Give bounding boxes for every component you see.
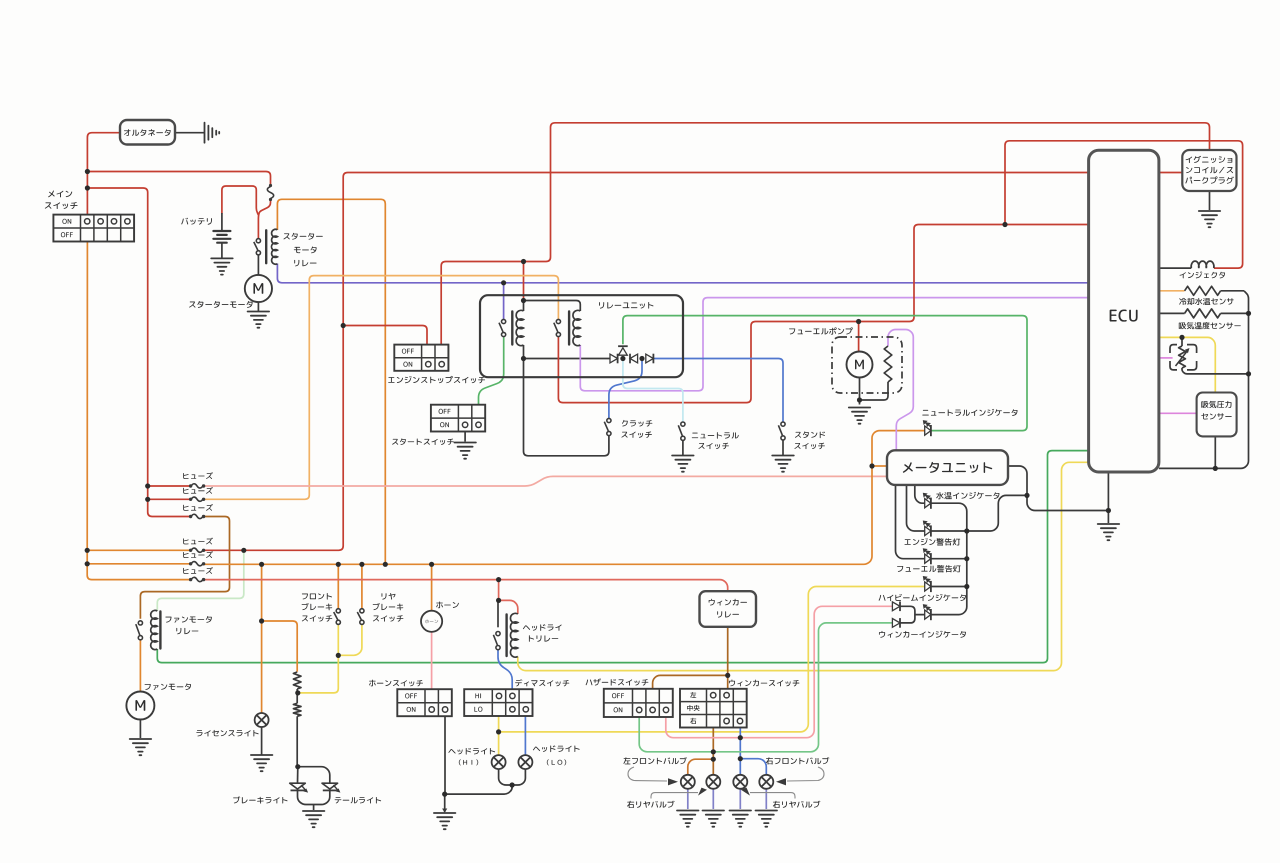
headlight relay coil: [510, 613, 517, 657]
horn switch ground: [434, 813, 456, 829]
front brake label2: [302, 603, 333, 610]
fan relay contact: [136, 621, 143, 640]
ignition coil box: [1182, 150, 1236, 191]
brake light filament: [293, 672, 301, 689]
fuse F3: [189, 515, 192, 518]
wire black engine LED right: [931, 530, 967, 532]
wire blue stand switch: [654, 359, 783, 422]
junction thermistor yellow: [1179, 335, 1184, 340]
wire black bus to ground node: [967, 495, 1027, 531]
wire yellow dimmer HI output: [498, 717, 500, 756]
fan motor: [126, 692, 154, 720]
right rear bulb label: [773, 801, 820, 808]
wire blue dimmer LO output: [524, 717, 526, 756]
wire black intake temp feed: [1159, 312, 1185, 314]
fuel level sender resistor: [884, 346, 892, 382]
LED fuel warning: [925, 554, 931, 563]
water temp indicator label: [936, 492, 999, 499]
junction fuel pump feed: [856, 319, 861, 324]
thermistor resistor: [1179, 346, 1186, 368]
hazard switch grid: [604, 689, 673, 717]
fuse F4: [189, 549, 192, 552]
wire blue right front bulb branch: [740, 759, 766, 775]
junction relay red node: [521, 259, 526, 264]
wire blue headlight relay to dimmer: [498, 650, 512, 689]
tail light filament: [293, 703, 301, 716]
wire black starter motor ground stub: [257, 302, 259, 312]
wire red main to fuse feed: [87, 188, 190, 517]
junction rear brake: [359, 562, 364, 567]
wire light-red headlight relay drop: [498, 580, 500, 601]
wire black fuel pump ground stub: [859, 400, 861, 405]
junction left bulbs: [711, 757, 716, 762]
wire black engine LED left: [907, 485, 925, 531]
fan motor relay coil: [151, 610, 158, 649]
winker switch grid label 左: [690, 692, 696, 698]
wire indigo starter relay coil to ECU: [277, 264, 1088, 283]
main switch grid: [53, 215, 134, 242]
junction fuse4 in: [85, 548, 90, 553]
wire blue bulb ground stub 4: [765, 789, 767, 809]
injector coil: [1191, 261, 1214, 268]
dimmer switch label: [515, 679, 569, 686]
junction headlight relay node: [496, 598, 501, 603]
junction meter orange: [869, 463, 874, 468]
start switch grid label ON: [440, 422, 449, 427]
coolant sensor label: [1179, 298, 1233, 305]
junction map ground: [1213, 466, 1218, 471]
wire orange starter relay coil feed: [277, 199, 385, 564]
wire orange meter feed: [872, 465, 887, 467]
main switch label2: [45, 202, 78, 209]
fan relay label2: [176, 628, 198, 634]
stand switch ground: [772, 456, 794, 472]
wire black horn ground stub: [444, 794, 446, 812]
leader left rear bulb: [651, 793, 698, 799]
alternator label: [124, 129, 171, 136]
wire brown winker left output: [712, 728, 714, 775]
wire green hazard left to indicator: [639, 623, 892, 752]
wire black map sensor ground: [1214, 436, 1216, 468]
left front bulb: [681, 775, 695, 789]
intake temp sensor resistor: [1185, 309, 1221, 318]
fuse F1: [189, 484, 192, 487]
wire black coil1 bottom stub: [523, 345, 525, 359]
coolant temp sensor resistor: [1185, 286, 1221, 295]
wire black alternator to ground: [175, 132, 205, 134]
winker relay box: [700, 591, 757, 627]
winker relay label1: [709, 599, 747, 606]
intake temp sensor label: [1179, 322, 1241, 329]
wire red relay2 output: [558, 225, 1088, 403]
neutral switch label1: [692, 432, 739, 439]
wire orange fuse4 input: [87, 549, 190, 551]
wire orange coolant sensor feed: [1159, 290, 1185, 292]
LED water temp indicator: [925, 499, 931, 508]
wire blue winker right output: [739, 728, 741, 775]
wire black coolant sensor out: [1221, 290, 1244, 292]
wire red fusible to battery junction: [258, 198, 270, 238]
wire red battery link: [222, 186, 259, 215]
fan relay label1: [165, 616, 211, 623]
relay2 contact: [554, 319, 561, 336]
brake light label: [233, 796, 287, 803]
wire yellow front brake out: [337, 624, 339, 655]
wire black intake temp out: [1221, 312, 1249, 314]
junction bus fuel: [964, 556, 969, 561]
fuse F5: [189, 562, 192, 565]
wire light-orange fuse2 to relay2 switch: [203, 276, 558, 500]
fuel pump motor: [847, 352, 873, 378]
wire black clutch return: [524, 359, 609, 456]
tail light label: [335, 797, 382, 804]
rear brake label2: [373, 603, 404, 610]
relay unit label: [599, 302, 653, 309]
fuse F6 label: [183, 567, 213, 574]
wire black diode bus: [524, 358, 611, 360]
hazard switch grid label OFF: [612, 693, 624, 698]
wire orange horn drop: [431, 564, 433, 610]
left front bulb label: [623, 757, 686, 764]
horn circle: [421, 611, 442, 632]
wire black license ground stub: [261, 727, 263, 755]
map sensor label1: [1201, 401, 1231, 408]
wire black ignition ground stub: [1209, 191, 1211, 210]
junction winker brown: [725, 673, 730, 678]
fuse F4 label: [183, 538, 213, 545]
stand switch label1: [795, 431, 825, 438]
diode winker ind right: [892, 619, 900, 628]
leader right front bulb: [787, 767, 824, 781]
wire yellow map sensor feed: [1159, 337, 1215, 392]
fusible link: [269, 184, 272, 187]
wire black highbeam LED right: [931, 586, 967, 588]
rear brake label1: [382, 593, 396, 600]
wire orange fuse5 accessory line: [203, 431, 925, 565]
starter motor ground: [248, 312, 270, 328]
wire black headlight relay switch stub: [497, 600, 499, 627]
neutral switch label2: [698, 443, 728, 449]
battery label: [181, 218, 212, 225]
clutch switch label1: [622, 420, 652, 427]
leader right rear bulb: [750, 793, 795, 799]
engine stop switch grid label OFF: [402, 349, 414, 354]
ignition label2: [1186, 167, 1233, 174]
wire black water temp LED left: [915, 485, 925, 503]
wire light-red headlight relay coil feed: [499, 600, 518, 614]
horn switch label: [369, 680, 423, 687]
headlight LO label2: [547, 759, 566, 765]
horn label: [436, 602, 459, 609]
fuse F6: [189, 578, 192, 581]
wire black meter right link: [1008, 466, 1027, 495]
junction right bulbs: [738, 756, 743, 761]
wire black meter ground line: [1027, 495, 1108, 510]
license light ground: [251, 755, 273, 771]
wire orange tail light feed: [262, 621, 298, 672]
engine stop switch label: [388, 376, 485, 383]
headlight relay label1: [523, 624, 562, 631]
junction ECU power: [1002, 222, 1007, 227]
wire brown winker relay output: [727, 627, 729, 689]
wire black ECU ground: [1107, 472, 1109, 523]
alternator ground: [205, 123, 220, 143]
starter motor label M: [253, 283, 263, 294]
wire yellow headlight relay coil to ECU: [518, 462, 1089, 670]
map sensor box: [1197, 393, 1237, 437]
junction main-alternator: [85, 169, 90, 174]
right front bulb label: [766, 757, 829, 764]
winker switch grid label 右: [690, 718, 696, 724]
junction license: [259, 562, 264, 567]
winker switch label: [729, 680, 799, 687]
start switch ground: [454, 443, 476, 459]
main switch grid label OFF: [61, 232, 73, 237]
wire red fuse1 input: [148, 485, 191, 487]
wire blue bulb ground stub 3: [739, 789, 741, 809]
horn switch grid label ON: [407, 707, 416, 712]
wire violet fuel sender to meter: [888, 330, 913, 451]
junction indigo relay1: [501, 280, 506, 285]
main switch grid label ON: [62, 219, 71, 224]
left front bulb ground: [677, 811, 699, 827]
junction relay bus node: [521, 356, 526, 361]
fuse F5 label: [183, 551, 213, 558]
junction main-fusefeed: [85, 185, 90, 190]
wire black horn switch ground line: [444, 717, 446, 795]
dimmer switch grid: [464, 689, 532, 716]
winker relay label2: [717, 611, 739, 617]
diode D3: [630, 354, 638, 363]
wire blue bulb ground stub 2: [712, 789, 714, 809]
junction fuse2 in: [145, 497, 150, 502]
start switch label: [392, 438, 454, 445]
junction indicator ground node: [1024, 493, 1029, 498]
winker switch grid label 中央: [687, 705, 700, 711]
stand switch contact: [778, 422, 785, 440]
headlight LO label1: [533, 745, 580, 752]
headlight relay label2: [529, 635, 558, 642]
horn switch grid: [397, 689, 452, 716]
left rear bulb ground: [703, 811, 725, 827]
junction sensor bus 2: [1246, 371, 1251, 376]
LED winker indicator: [925, 610, 931, 619]
wire black battery top stub: [221, 213, 223, 231]
wire pink hazard right to indicator: [666, 606, 893, 737]
wire red ecu to ignition: [1159, 172, 1182, 174]
right rear bulb ground: [730, 811, 752, 827]
battery ground: [211, 258, 233, 274]
wire red stop switch col1 feed: [343, 326, 427, 345]
junction brake yellow: [336, 653, 341, 658]
right front bulb: [759, 775, 773, 789]
junction fuse6 headlight: [496, 577, 501, 582]
wire black thermistor top stub: [1181, 337, 1183, 346]
junction bus highbeam: [964, 584, 969, 589]
wire black winker LED right: [931, 587, 967, 615]
wire orange left front bulb branch: [688, 759, 714, 775]
wire black relay switch to starter motor: [257, 255, 259, 275]
fuse F1 label: [183, 472, 213, 479]
front brake switch contact: [334, 609, 341, 625]
wire orange fan relay to motor: [139, 640, 141, 691]
brake light lamp: [290, 783, 306, 789]
start switch grid: [431, 405, 485, 432]
wire red fuse4 riser: [203, 173, 1088, 551]
horn switch grid label OFF: [405, 693, 417, 698]
wire yellow brake to tail lamp: [298, 655, 339, 693]
fan motor ground: [130, 739, 152, 755]
leader left front bulb: [628, 767, 667, 781]
wire green fan coil to ECU: [157, 451, 1088, 663]
ECU label: [1110, 310, 1138, 322]
wire black tail lamp branch: [298, 767, 330, 783]
wire green neutral indicator loop: [623, 316, 1027, 431]
neutral indicator label: [922, 409, 1017, 416]
wire orange license light drop: [261, 564, 263, 713]
wire black coil1 top stub: [523, 301, 525, 312]
wire black lamp ground stub: [313, 805, 315, 811]
front brake label1: [302, 593, 332, 600]
injector label: [1180, 271, 1225, 278]
license light label: [196, 730, 258, 737]
wire black lamp commons: [298, 790, 330, 804]
wire yellow high beam indicator line: [499, 587, 925, 732]
headlight LO bulb: [518, 755, 532, 769]
engine stop switch grid: [394, 345, 448, 371]
wire red relay1 drop: [523, 262, 525, 301]
meter unit label: [903, 462, 992, 473]
diode D2: [619, 348, 628, 355]
wire orange front brake switch drop: [337, 564, 339, 608]
relay1 coil: [516, 310, 523, 345]
wire cyan neutral switch: [623, 359, 683, 422]
tail light ground: [303, 811, 325, 827]
junction bus engine: [964, 528, 969, 533]
thermistor arrow: [1176, 350, 1189, 366]
wire black neutral switch ground stub: [682, 440, 684, 455]
wire brown fuse3 to fan relay: [140, 517, 229, 619]
junction winker-hazard left: [711, 749, 716, 754]
starter relay label3: [294, 260, 316, 267]
starter motor relay coil: [272, 229, 278, 264]
wire pale-green fuse4 to fan coil: [157, 550, 244, 611]
fan motor label: [145, 683, 191, 690]
wire black relay coils feed: [524, 301, 581, 312]
rear brake switch contact: [357, 609, 364, 625]
headlight relay contact: [493, 632, 500, 650]
relay1 contact: [499, 319, 506, 336]
starter relay contact: [254, 239, 261, 255]
battery: [213, 231, 230, 243]
winker switch grid: [680, 689, 747, 728]
wire black fuel pump motor ground: [859, 378, 861, 401]
front brake label3: [302, 615, 332, 621]
wire indigo relay1 switch feed: [503, 283, 505, 320]
junction ECU ground: [1106, 508, 1111, 513]
wire violet coil2 to ECU: [580, 298, 1088, 391]
wire red stop switch col2 to top line: [441, 123, 1209, 345]
wire black thermistor bottom: [1182, 368, 1249, 374]
wire black injector feed: [1159, 267, 1191, 269]
diode winker ind left: [892, 602, 900, 611]
junction tail feed: [259, 618, 264, 623]
clutch switch label2: [621, 431, 651, 437]
wire pink horn to switch: [431, 632, 433, 689]
junction sensor bus 1: [1246, 311, 1251, 316]
fuel pump label: [789, 327, 853, 334]
wire black fuel LED left: [896, 485, 925, 559]
wire black stand switch ground stub: [782, 440, 784, 455]
wire magenta map sensor signal: [1159, 412, 1197, 414]
wire yellow rear brake out: [338, 624, 362, 655]
starter motor: [245, 275, 272, 302]
diode D4: [646, 354, 654, 363]
LED neutral indicator: [925, 426, 931, 435]
junction diode node A: [620, 356, 625, 361]
junction lamp split: [295, 764, 300, 769]
wire black indicator bus: [931, 503, 967, 586]
wire black start switch ground stub: [464, 432, 466, 442]
fuel pump motor label M: [855, 360, 864, 370]
junction starter coil line: [383, 562, 388, 567]
wire red alternator feed: [87, 133, 120, 215]
start switch grid label OFF: [439, 409, 451, 414]
neutral switch contact: [678, 422, 685, 440]
tail light lamp: [322, 783, 338, 789]
junction dimmer HI: [496, 729, 501, 734]
ignition label3: [1185, 176, 1233, 183]
junction relay coils node: [521, 298, 526, 303]
ECU box: [1089, 150, 1159, 472]
junction fuse4 out: [241, 548, 246, 553]
LED high beam indicator: [925, 582, 931, 591]
junction stop switch feed: [341, 323, 346, 328]
stand switch label2: [794, 443, 824, 449]
junction diode node B: [639, 356, 644, 361]
relay unit box: [480, 295, 683, 377]
starter relay label1: [283, 233, 322, 240]
high beam indicator label: [879, 594, 966, 601]
headlight HI bulb: [492, 755, 506, 769]
LED engine warning: [925, 526, 931, 535]
right front bulb ground: [756, 811, 778, 827]
junction front brake: [336, 562, 341, 567]
wire red main to starter relay: [87, 172, 270, 187]
wire brown hazard feed: [653, 675, 728, 689]
wire black fuel LED right: [931, 558, 967, 560]
wire red fuel pump drop: [858, 322, 860, 352]
junction headlight ground: [442, 792, 447, 797]
wire black headlight commons: [499, 769, 526, 786]
thermistor brackets: [1170, 345, 1197, 370]
wire salmon fuse1 to meter: [203, 476, 887, 486]
wire red injector loop: [1005, 141, 1243, 268]
hazard switch label: [586, 678, 649, 685]
fuse F3 label: [183, 504, 213, 511]
fuse F2 label: [183, 487, 213, 494]
rear brake label3: [373, 615, 403, 621]
left rear bulb label: [627, 801, 674, 808]
junction fuse1 in: [145, 483, 150, 488]
ignition ground: [1199, 211, 1220, 227]
headlight HI label1: [448, 748, 495, 755]
dimmer switch grid label HI: [475, 693, 481, 698]
fuse F2: [189, 498, 192, 501]
wire black battery to ground: [221, 243, 223, 258]
wire black tail stack mid: [296, 689, 298, 703]
dimmer switch grid label LO: [474, 707, 482, 712]
